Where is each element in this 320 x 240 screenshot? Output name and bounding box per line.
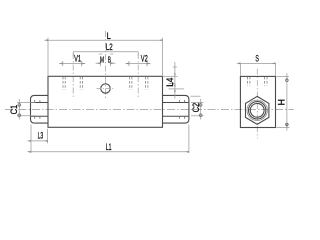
- dim S: [240, 63, 275, 76]
- bore circles: [249, 102, 266, 119]
- hex nut outline (end view): [246, 96, 269, 124]
- svg-text:S: S: [255, 53, 259, 63]
- V1 port centerline: [72, 53, 74, 97]
- M port circle: [101, 84, 110, 93]
- vertical centerline of M port: [105, 31, 107, 100]
- svg-text:V1: V1: [74, 53, 81, 63]
- left hex flat line upper: [31, 102, 48, 104]
- right hex end: [163, 95, 189, 123]
- right hex flat line lower: [163, 115, 189, 117]
- svg-text:L1: L1: [106, 142, 112, 152]
- V2 hidden thread lines: [130, 77, 148, 90]
- dim C2: [191, 96, 204, 119]
- tick marks below L2 near centerline: [99, 53, 103, 55]
- thread outer circle: [247, 100, 267, 120]
- end view rectangle: [240, 76, 275, 127]
- M port horizontal crosshair: [97, 88, 115, 90]
- dim L line: [48, 39, 163, 41]
- svg-text:L4: L4: [165, 78, 175, 87]
- svg-text:L: L: [107, 31, 111, 41]
- svg-text:L3: L3: [38, 130, 44, 140]
- dim H: [277, 73, 290, 130]
- svg-text:H: H: [276, 99, 286, 106]
- dim M B: [96, 61, 116, 66]
- V2 port centerline: [137, 53, 139, 97]
- svg-text:B: B: [108, 56, 111, 65]
- svg-text:C1: C1: [9, 105, 19, 115]
- dim L1: [31, 125, 189, 154]
- left hex flat line lower: [31, 115, 48, 117]
- dim C1: [17, 99, 36, 120]
- V1 hidden thread lines: [63, 77, 83, 90]
- svg-text:L2: L2: [106, 42, 113, 52]
- svg-text:M: M: [100, 56, 104, 65]
- left hex chamfer arcs: [35, 100, 40, 119]
- end view hidden port lines: [247, 77, 267, 86]
- body rectangle: [48, 76, 163, 127]
- svg-text:V2: V2: [141, 53, 148, 63]
- svg-text:C2: C2: [191, 103, 201, 113]
- right hex chamfer arcs: [179, 100, 184, 119]
- dim V1: [60, 61, 85, 66]
- dim L2 line: [73, 51, 138, 53]
- dim L3: [31, 125, 48, 154]
- end view vertical centerline: [256, 69, 258, 139]
- dim L4: [163, 62, 185, 99]
- dim L extension lines: [47, 38, 49, 76]
- right hex flat line upper: [163, 102, 189, 104]
- dim V2: [126, 61, 150, 66]
- left hex end: [31, 95, 49, 123]
- horizontal main centerline: [5, 108, 294, 110]
